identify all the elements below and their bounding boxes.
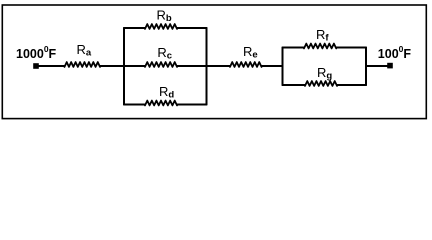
wire: left bus of parallel group Rf/Rg xyxy=(282,47,284,86)
resistor Rc xyxy=(145,62,177,67)
resistor Ra xyxy=(65,62,101,67)
wire: Rg right lead xyxy=(337,84,367,86)
node: right terminal (100 deg F) xyxy=(387,63,393,69)
resistor Rd xyxy=(145,101,177,106)
wire: Ra to parallel group 1 xyxy=(100,65,126,67)
wire: Re to parallel group 2 xyxy=(261,65,283,67)
wire: Rd right lead xyxy=(177,104,208,106)
wire: Rc left lead xyxy=(124,65,146,67)
resistor Rb xyxy=(145,24,177,29)
wire: Rf left lead xyxy=(282,47,305,49)
wire: left bus of parallel group Rb/Rc/Rd xyxy=(123,27,125,105)
wire: parallel group 1 to Re xyxy=(206,65,231,67)
wire: right bus of parallel group Rb/Rc/Rd xyxy=(206,27,208,105)
wire: Rd left lead xyxy=(124,104,146,106)
wire: Rg left lead xyxy=(282,84,306,86)
wire: Rb left lead xyxy=(124,27,146,29)
wire: right bus of parallel group Rf/Rg xyxy=(365,47,367,86)
node: left terminal (1000 deg F) xyxy=(33,63,39,69)
wire: left terminal to Ra xyxy=(36,65,65,67)
wire: Rb right lead xyxy=(177,27,208,29)
wire: parallel group 2 to right terminal xyxy=(366,65,391,67)
wire: Rc right lead xyxy=(177,65,208,67)
svg-text:1000F: 1000F xyxy=(378,44,412,61)
resistor Rf xyxy=(304,44,336,49)
resistor Rg xyxy=(305,81,337,86)
wire: Rf right lead xyxy=(336,47,367,49)
resistor Re xyxy=(230,62,262,67)
svg-text:10000F: 10000F xyxy=(16,44,57,61)
